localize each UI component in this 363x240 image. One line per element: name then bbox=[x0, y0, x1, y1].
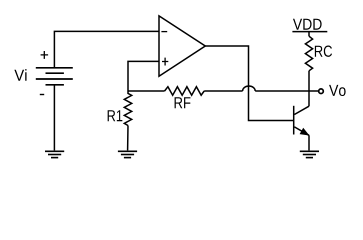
label R1 bbox=[108, 110, 123, 121]
battery + sign bbox=[41, 51, 49, 59]
ground (R1) bbox=[118, 151, 137, 157]
wire: hop to output node and Vo terminal bbox=[255, 90, 318, 92]
wire: node A to RF left lead bbox=[128, 90, 165, 92]
wire: emitter down to ground bbox=[308, 135, 310, 150]
transistor Q1 emitter arrowhead bbox=[300, 129, 308, 135]
label VDD bbox=[293, 19, 322, 30]
transistor Q1 base bar bbox=[293, 106, 295, 135]
output terminal circle Vo bbox=[319, 89, 324, 94]
op-amp minus sign (inverting input) bbox=[161, 31, 167, 33]
label Vo bbox=[329, 85, 346, 96]
transistor Q1 emitter diagonal bbox=[294, 127, 309, 135]
op-amp plus sign (non-inverting input) bbox=[162, 58, 168, 66]
ground (battery) bbox=[45, 151, 64, 157]
wire: RF right lead to hop bbox=[204, 90, 242, 92]
wire: RC bottom through output node down to collector corner bbox=[308, 71, 310, 106]
transistor Q1 collector diagonal bbox=[294, 106, 309, 114]
wire: battery + terminal up and right to op-amp inverting input bbox=[54, 31, 159, 67]
resistor R1 bbox=[124, 91, 131, 126]
battery Vi plates bbox=[36, 68, 73, 85]
label Vi bbox=[14, 69, 26, 81]
wire: non-inverting input left and down to node A (R1/RF junction) bbox=[128, 61, 159, 91]
op-amp U1 triangle bbox=[159, 16, 205, 76]
wire hop over vertical wire (no connection) bbox=[243, 86, 256, 91]
wire: battery - terminal down to ground bbox=[53, 85, 55, 151]
wire: VDD rail down to RC top bbox=[308, 32, 310, 37]
wire: R1 bottom to ground bbox=[127, 126, 129, 151]
battery - sign bbox=[40, 94, 44, 96]
VDD power rail underline bbox=[292, 31, 327, 33]
wire: op-amp output right, down, to transistor base bbox=[205, 46, 293, 121]
resistor RF bbox=[165, 87, 205, 96]
label RC bbox=[315, 46, 332, 57]
label RF bbox=[175, 97, 191, 108]
ground (emitter) bbox=[300, 151, 319, 157]
resistor RC bbox=[305, 36, 312, 71]
